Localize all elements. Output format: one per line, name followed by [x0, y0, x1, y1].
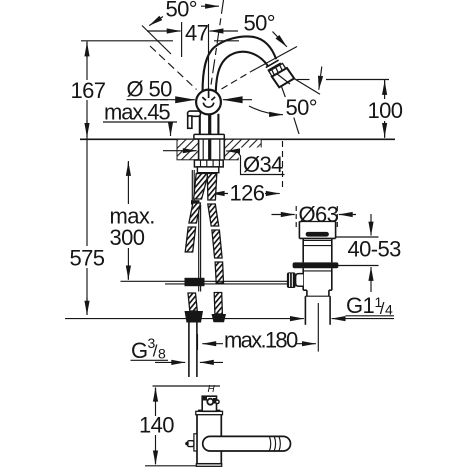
- svg-text:max.45: max.45: [104, 99, 170, 124]
- svg-text:max.180: max.180: [224, 327, 298, 352]
- svg-text:167: 167: [71, 78, 106, 103]
- supply pipe left: [189, 323, 197, 378]
- hose end cone right: [212, 314, 227, 322]
- wire outlet diagonal L4: [294, 78, 321, 94]
- faucet base flange: [194, 134, 224, 139]
- hose end cone left: [185, 311, 204, 323]
- waste tailpipe: [305, 296, 330, 325]
- pop-up vertical rod: [191, 170, 201, 292]
- wire top reference ledge line y=40.8: [81, 40, 239, 42]
- rod clamp block: [185, 278, 205, 286]
- svg-text:Ø34: Ø34: [243, 152, 283, 177]
- horizontal pop-up linkage rod: [165, 281, 288, 284]
- svg-text:Ø63: Ø63: [299, 202, 339, 227]
- side view faucet body: [196, 410, 223, 464]
- wire construction line L1b dashed: [150, 46, 197, 90]
- lower hose pieces and cones: [188, 293, 222, 315]
- svg-text:100: 100: [368, 98, 403, 123]
- side view pop-up knob left: [185, 434, 197, 451]
- aerator block: [272, 68, 294, 87]
- node dimension 47: [147, 22, 238, 90]
- waste centerline extension: [317, 303, 319, 352]
- waste plug cap dark: [306, 232, 329, 237]
- node dimension max.300 at x=128.4: [121, 161, 166, 281]
- svg-text:300: 300: [110, 225, 145, 250]
- svg-text:50°: 50°: [244, 11, 275, 36]
- node dimension 126: [211, 141, 283, 194]
- pop-up waste upper tube: [299, 222, 335, 239]
- side view spout capsule: [203, 436, 291, 451]
- waste body: [303, 268, 332, 290]
- svg-text:8: 8: [158, 346, 166, 362]
- node dimension line 167/575 at x=87: [86, 42, 88, 316]
- side view handle knob: [202, 396, 219, 411]
- faucet body: [200, 114, 219, 135]
- aerator collar band: [266, 60, 281, 71]
- node dimension 40-53: [335, 214, 379, 292]
- wire handle axis line L2 dashed: [210, 0, 224, 93]
- svg-text:575: 575: [70, 245, 105, 270]
- waste knurled knob: [287, 272, 296, 288]
- deck hatched block: [177, 139, 286, 176]
- waste flange black seal: [293, 262, 339, 268]
- svg-text:4: 4: [385, 302, 393, 318]
- pop-up rod inside body dark: [208, 113, 211, 160]
- wire outlet horizontal centerline dashed: [297, 79, 390, 81]
- supply hose left (3 hatched pieces): [185, 174, 208, 253]
- node dimension max.180: [198, 334, 316, 350]
- svg-text:50°: 50°: [166, 0, 197, 21]
- faucet locknut below deck: [194, 160, 223, 177]
- handle ball: [196, 90, 221, 115]
- wire construction line L1a: [142, 26, 171, 55]
- waste lower step: [303, 290, 332, 296]
- waste lever boss: [296, 274, 304, 287]
- node label diameter 34 with leader: [163, 151, 285, 175]
- svg-text:50°: 50°: [286, 95, 317, 120]
- node dimension G1 1/4: [65, 316, 394, 319]
- svg-text:G1: G1: [346, 293, 375, 318]
- svg-text:G: G: [131, 338, 148, 363]
- node label diameter 63 with arrows: [272, 206, 357, 227]
- wire outlet axis L5: [278, 76, 300, 135]
- side view: dimension 140: [145, 386, 220, 466]
- supply hose right (4 hatched pieces): [207, 174, 223, 284]
- wire deck surface line: [80, 138, 395, 140]
- svg-text:Ø 50: Ø 50: [127, 76, 173, 101]
- pop-up knob on body: [188, 111, 201, 128]
- aerator hatched ring: [269, 63, 286, 77]
- faucet shank through deck: [199, 139, 225, 160]
- waste neck: [299, 238, 335, 262]
- svg-text:126: 126: [230, 180, 265, 205]
- wire aerator face extension L3: [222, 47, 298, 90]
- svg-text:140: 140: [139, 413, 174, 438]
- svg-text:47: 47: [185, 21, 209, 46]
- node dimension G 3/8: [131, 360, 224, 362]
- spout inner curve: [216, 52, 269, 96]
- node dimension 100 at x=384.6: [384, 80, 386, 138]
- svg-text:40-53: 40-53: [348, 236, 402, 261]
- spout outer curve: [203, 36, 277, 95]
- side view base: [196, 464, 221, 467]
